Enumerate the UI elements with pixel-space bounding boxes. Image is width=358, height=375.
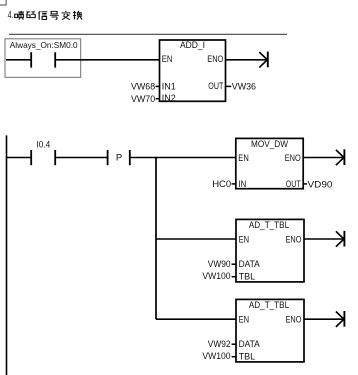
svg-text:ENO: ENO <box>207 54 223 65</box>
wire: AD_T_TBL#2 ENO to arrow <box>304 318 343 320</box>
glyph 码 <box>26 12 35 18</box>
svg-text:HC0: HC0 <box>212 179 231 190</box>
svg-text:VW68: VW68 <box>131 82 155 93</box>
svg-text:P: P <box>116 152 122 163</box>
svg-text:ENO: ENO <box>286 235 302 246</box>
wire: rail to contact SM0.0 <box>6 59 31 61</box>
wire: MOV_DW ENO to arrow <box>303 157 343 159</box>
contact I0.4 <box>31 150 55 165</box>
svg-text:I0.4: I0.4 <box>37 139 51 150</box>
open arrow (AD_T_TBL#2 rung) <box>336 311 345 327</box>
network title "4.喷码信号交换" <box>8 10 83 21</box>
svg-text:VW70: VW70 <box>131 94 155 105</box>
operand OUT -> VD90 <box>303 183 307 185</box>
svg-text:VW36: VW36 <box>232 81 256 92</box>
glyph 换 <box>73 11 82 20</box>
open arrow (AD_T_TBL#1 rung) <box>336 231 345 247</box>
svg-text:Always_On:SM0.0: Always_On:SM0.0 <box>10 41 78 50</box>
svg-text:DATA: DATA <box>239 339 261 350</box>
svg-text:EN: EN <box>162 54 173 65</box>
svg-text:ENO: ENO <box>285 153 301 164</box>
left power rail (network 2) <box>6 135 8 375</box>
svg-text:IN: IN <box>238 179 246 190</box>
svg-text:EN: EN <box>238 153 249 164</box>
svg-text:OUT: OUT <box>286 179 301 190</box>
selection rectangle around contact <box>5 39 81 78</box>
wire: rail to contact I0.4 <box>7 157 32 159</box>
svg-text:ADD_I: ADD_I <box>180 40 205 51</box>
wire: AD_T_TBL#1 ENO to arrow <box>304 238 343 240</box>
operand OUT -> VW36 <box>226 85 232 87</box>
svg-text:TBL: TBL <box>239 271 256 282</box>
contact P (positive edge) <box>108 150 130 165</box>
wire: ENO to arrow <box>226 59 267 61</box>
svg-text:OUT: OUT <box>208 81 223 92</box>
svg-text:TBL: TBL <box>239 351 256 362</box>
box AD_T_TBL #2 <box>236 299 304 362</box>
svg-text:VW90: VW90 <box>208 259 231 270</box>
svg-text:4.: 4. <box>8 10 14 21</box>
svg-text:DATA: DATA <box>239 259 261 270</box>
glyph 喷 <box>15 11 24 20</box>
glyph 信 <box>38 11 47 20</box>
box AD_T_TBL #1 <box>236 219 304 282</box>
svg-text:IN2: IN2 <box>162 93 176 104</box>
svg-text:VW92: VW92 <box>208 339 231 350</box>
open arrow (MOV_DW rung) <box>336 149 345 165</box>
box MOV_DW <box>236 138 303 190</box>
box ADD_I <box>160 40 226 104</box>
wire: branch to AD_T_TBL#2 EN <box>156 318 236 320</box>
svg-text:EN: EN <box>239 315 250 326</box>
glyph 号 <box>50 11 59 19</box>
svg-text:VW100: VW100 <box>202 271 230 282</box>
network separator line <box>9 33 287 35</box>
wire: contact to ADD_I EN <box>56 59 160 61</box>
cropped selection-box corner (top-left) <box>0 0 6 5</box>
wire: I0.4 to P contact <box>56 157 108 159</box>
svg-text:ENO: ENO <box>286 315 302 326</box>
svg-text:VD90: VD90 <box>308 180 333 191</box>
svg-text:AD_T_TBL: AD_T_TBL <box>249 300 289 311</box>
branch wire (vertical) from junction <box>155 158 157 320</box>
wire: P contact to MOV_DW EN <box>131 157 236 159</box>
svg-text:VW100: VW100 <box>202 351 230 362</box>
svg-text:AD_T_TBL: AD_T_TBL <box>249 220 289 231</box>
contact Always_On:SM0.0 <box>31 52 55 67</box>
glyph 交 <box>62 11 71 20</box>
open arrow (rung continuation) <box>259 52 268 68</box>
svg-text:MOV_DW: MOV_DW <box>251 139 288 150</box>
wire: branch to AD_T_TBL#1 EN <box>156 238 236 240</box>
svg-text:IN1: IN1 <box>162 82 176 93</box>
svg-text:EN: EN <box>239 235 250 246</box>
